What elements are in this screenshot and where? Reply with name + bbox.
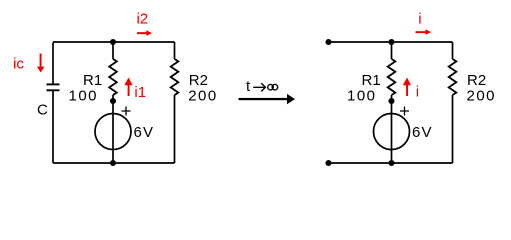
wire: left circuit middle branch upper stub [112, 42, 114, 59]
svg-text:i1: i1 [134, 84, 146, 101]
current arrow ic (red, down) [37, 54, 45, 73]
wire: right circuit middle branch through source [391, 95, 393, 163]
wire: right circuit right branch lower stub [452, 95, 454, 163]
svg-text:R1: R1 [362, 72, 381, 89]
node: left circuit between R1 and source [110, 98, 116, 104]
node: right circuit bottom junction [388, 160, 394, 166]
current arrow i mid (red, up) [403, 78, 411, 97]
node: right circuit between R1 and source [388, 98, 394, 104]
node: right circuit top junction [388, 39, 394, 45]
node: right circuit open terminal bottom [325, 160, 331, 166]
resistor R2 (right circuit) [449, 59, 457, 95]
current arrow i2 (red, right) [137, 30, 152, 36]
svg-text:t: t [246, 78, 251, 95]
capacitor C plates [47, 84, 60, 90]
wire: right circuit top rail [329, 41, 453, 43]
label t→∞ [246, 78, 278, 95]
wire: left circuit left branch upper (to capacitor) [52, 43, 54, 85]
wire: left circuit right branch upper stub [174, 42, 176, 59]
svg-text:i: i [418, 10, 421, 27]
svg-text:R2: R2 [189, 72, 208, 89]
svg-text:100: 100 [69, 88, 99, 105]
svg-text:200: 200 [188, 88, 218, 105]
node: right circuit open terminal top [325, 39, 331, 45]
svg-text:i2: i2 [137, 10, 149, 27]
svg-text:100: 100 [347, 88, 377, 105]
svg-text:200: 200 [467, 88, 497, 105]
voltage source V1 (6V, left circuit) [95, 114, 131, 150]
resistor R2 (left circuit) [171, 59, 179, 95]
wire: left circuit left branch lower (capacitor to bottom) [52, 90, 54, 163]
wire: left circuit top rail [53, 41, 175, 43]
wire: right circuit middle branch upper stub [391, 42, 393, 59]
wire: left circuit middle branch through source [112, 95, 114, 163]
current arrow i1 (red, up) [124, 78, 132, 97]
svg-text:C: C [37, 102, 48, 119]
plus sign (right source polarity) [400, 107, 409, 116]
svg-text:R2: R2 [467, 72, 486, 89]
resistor R1 (left circuit) [109, 59, 117, 95]
svg-text:6V: 6V [412, 124, 433, 141]
svg-text:ic: ic [13, 56, 24, 73]
node: left circuit bottom junction [110, 160, 116, 166]
plus sign (left source polarity) [122, 107, 131, 116]
svg-text:6V: 6V [134, 124, 155, 141]
current arrow i top (red, right) [416, 29, 432, 35]
svg-text:R1: R1 [83, 72, 102, 89]
wire: left circuit right branch lower stub [174, 95, 176, 163]
voltage source V1 (6V, right circuit) [374, 114, 410, 150]
wire: right circuit bottom rail [329, 162, 453, 164]
svg-text:i: i [416, 84, 419, 101]
arrow t→∞ (transition) [239, 94, 296, 104]
wire: right circuit right branch upper stub [452, 42, 454, 59]
node: left circuit top junction [110, 39, 116, 45]
resistor R1 (right circuit) [388, 59, 396, 95]
wire: left circuit bottom rail [53, 162, 175, 164]
